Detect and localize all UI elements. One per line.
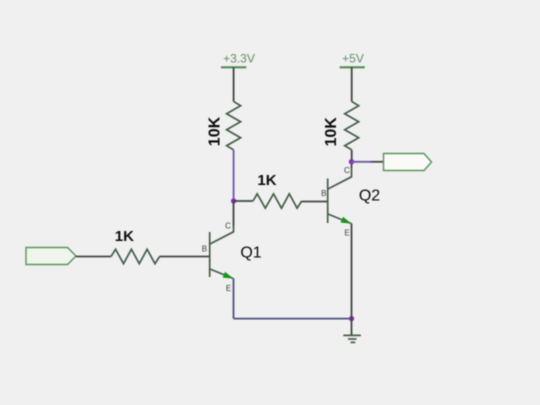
svg-text:B: B xyxy=(321,189,326,198)
junction at ground xyxy=(349,316,354,321)
wire R3 to Q2 base xyxy=(302,201,328,203)
power +3.3V xyxy=(221,52,255,68)
resistor R4 1K xyxy=(111,228,160,264)
svg-text:1K: 1K xyxy=(115,228,134,245)
ground xyxy=(343,335,361,342)
svg-text:C: C xyxy=(344,166,350,175)
node B xyxy=(349,159,354,164)
transistor Q2 xyxy=(321,166,380,237)
svg-text:B: B xyxy=(202,244,207,253)
svg-text:+5V: +5V xyxy=(342,52,364,66)
node A xyxy=(231,198,236,203)
wire R1 to node A xyxy=(233,150,235,201)
wire bottom emitter to ground net xyxy=(234,318,352,320)
wire Q2 emitter down xyxy=(351,224,353,319)
output port xyxy=(384,154,432,171)
wire node B to output port xyxy=(352,161,372,163)
input port xyxy=(26,248,76,265)
wire R4 to Q1 base xyxy=(160,256,210,258)
svg-text:Q1: Q1 xyxy=(240,244,261,261)
svg-text:1K: 1K xyxy=(257,172,276,189)
svg-text:C: C xyxy=(225,221,231,230)
wire node A to R3 xyxy=(234,200,253,202)
svg-text:+3.3V: +3.3V xyxy=(223,52,255,66)
svg-text:10K: 10K xyxy=(323,117,340,147)
wire +5V to R2 xyxy=(351,67,353,101)
wire junction to ground xyxy=(351,319,353,336)
wire R2 to node B xyxy=(351,150,353,162)
wire +3.3V to R1 xyxy=(233,67,235,101)
wire Q1 emitter down xyxy=(233,279,235,319)
power +5V xyxy=(340,52,365,68)
wire input port to R4 xyxy=(76,256,111,258)
wire Q1 collector to node A xyxy=(233,201,235,226)
transistor Q1 xyxy=(202,221,262,293)
resistor R1 10K xyxy=(207,102,241,150)
resistor R2 10K xyxy=(323,102,359,150)
svg-text:10K: 10K xyxy=(207,116,224,146)
svg-text:E: E xyxy=(226,284,231,293)
wire Q2 collector to node B xyxy=(351,162,353,168)
svg-text:Q2: Q2 xyxy=(359,188,380,205)
resistor R3 1K xyxy=(253,172,302,208)
svg-text:E: E xyxy=(344,229,349,238)
